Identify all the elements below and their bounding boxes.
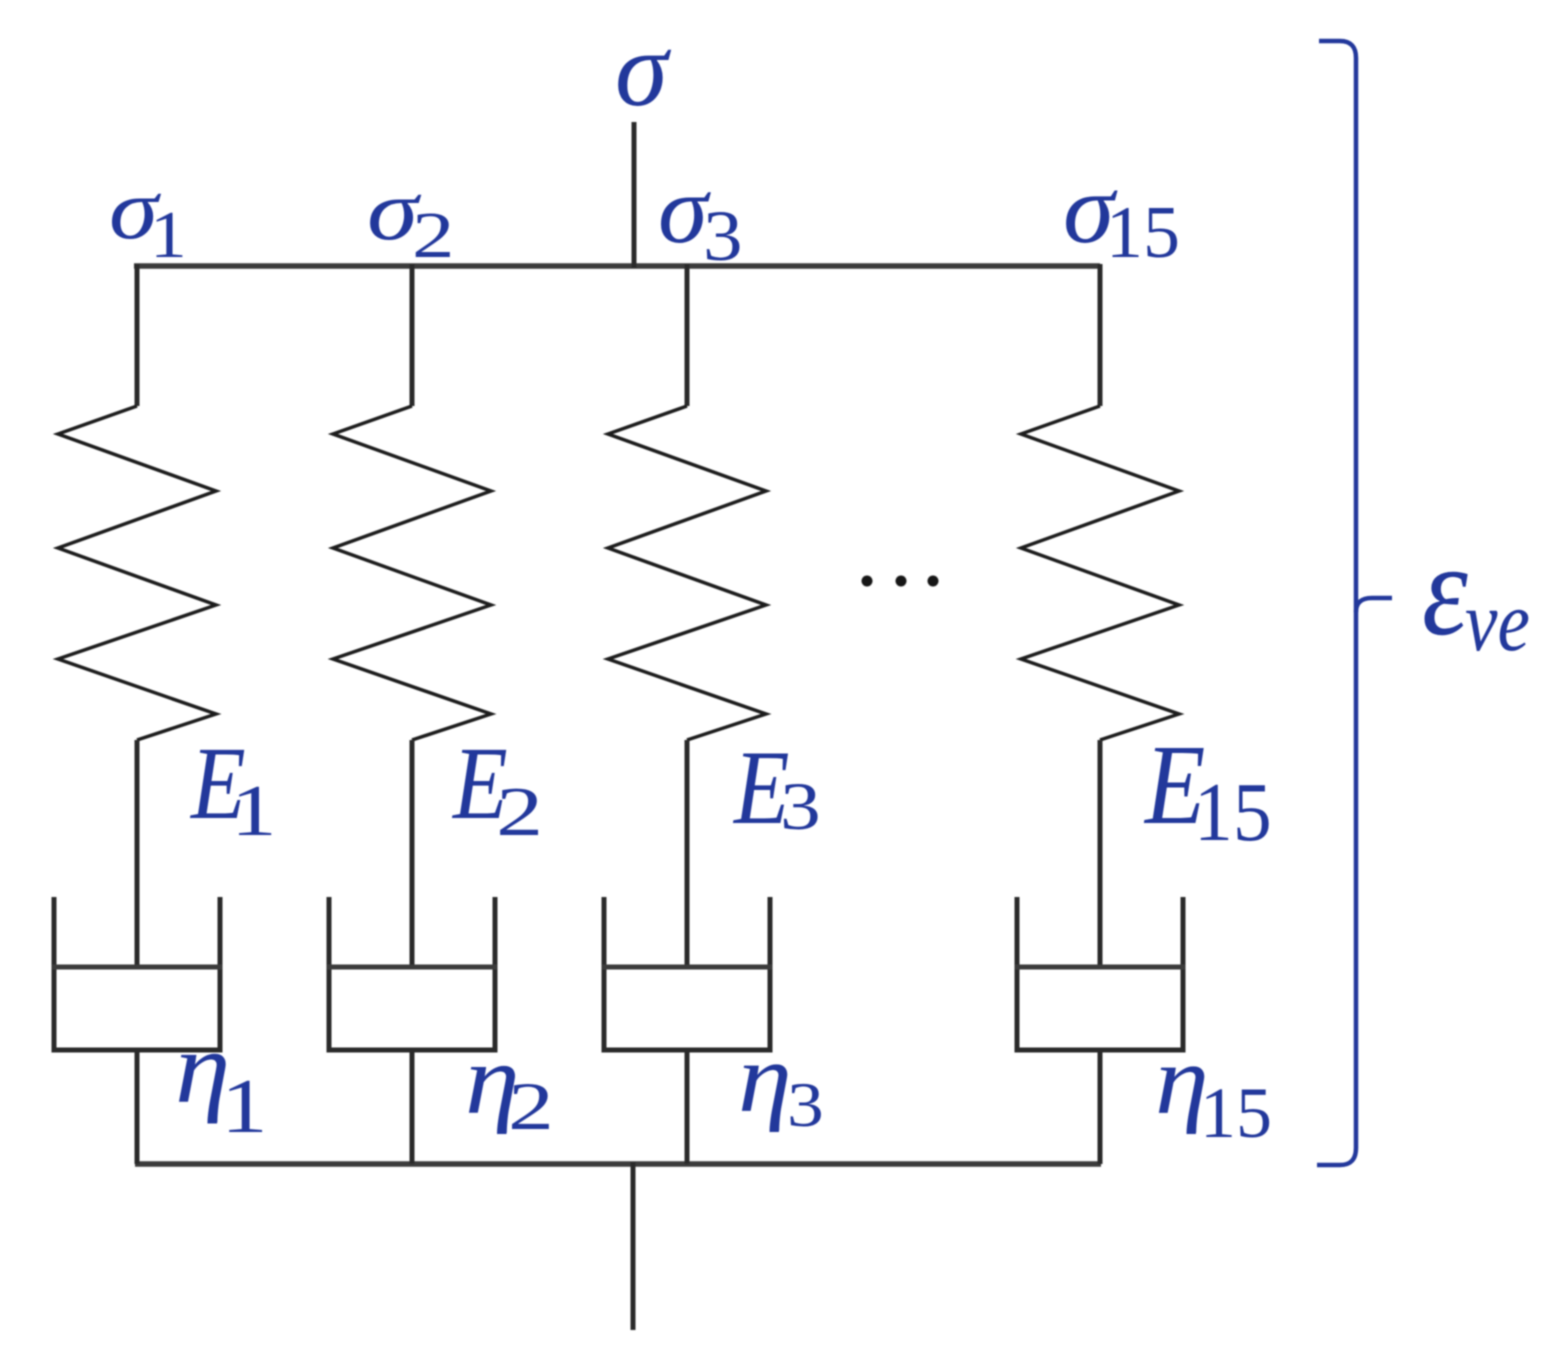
svg-text:15: 15	[1194, 766, 1272, 858]
svg-text:2: 2	[412, 199, 455, 271]
svg-text:15: 15	[1106, 192, 1180, 274]
svg-text:15: 15	[1200, 1073, 1272, 1153]
svg-text:η: η	[738, 1024, 792, 1132]
svg-text:1: 1	[231, 770, 277, 851]
svg-text:1: 1	[221, 1062, 268, 1149]
svg-text:3: 3	[787, 1069, 824, 1140]
svg-text:2: 2	[496, 773, 543, 850]
svg-text:2: 2	[508, 1069, 554, 1144]
svg-text:1: 1	[150, 198, 187, 272]
svg-text:3: 3	[703, 197, 743, 276]
svg-text:ve: ve	[1465, 575, 1530, 670]
svg-text:σ: σ	[615, 11, 672, 129]
svg-text:3: 3	[780, 769, 821, 844]
svg-text:ε: ε	[1422, 516, 1468, 663]
